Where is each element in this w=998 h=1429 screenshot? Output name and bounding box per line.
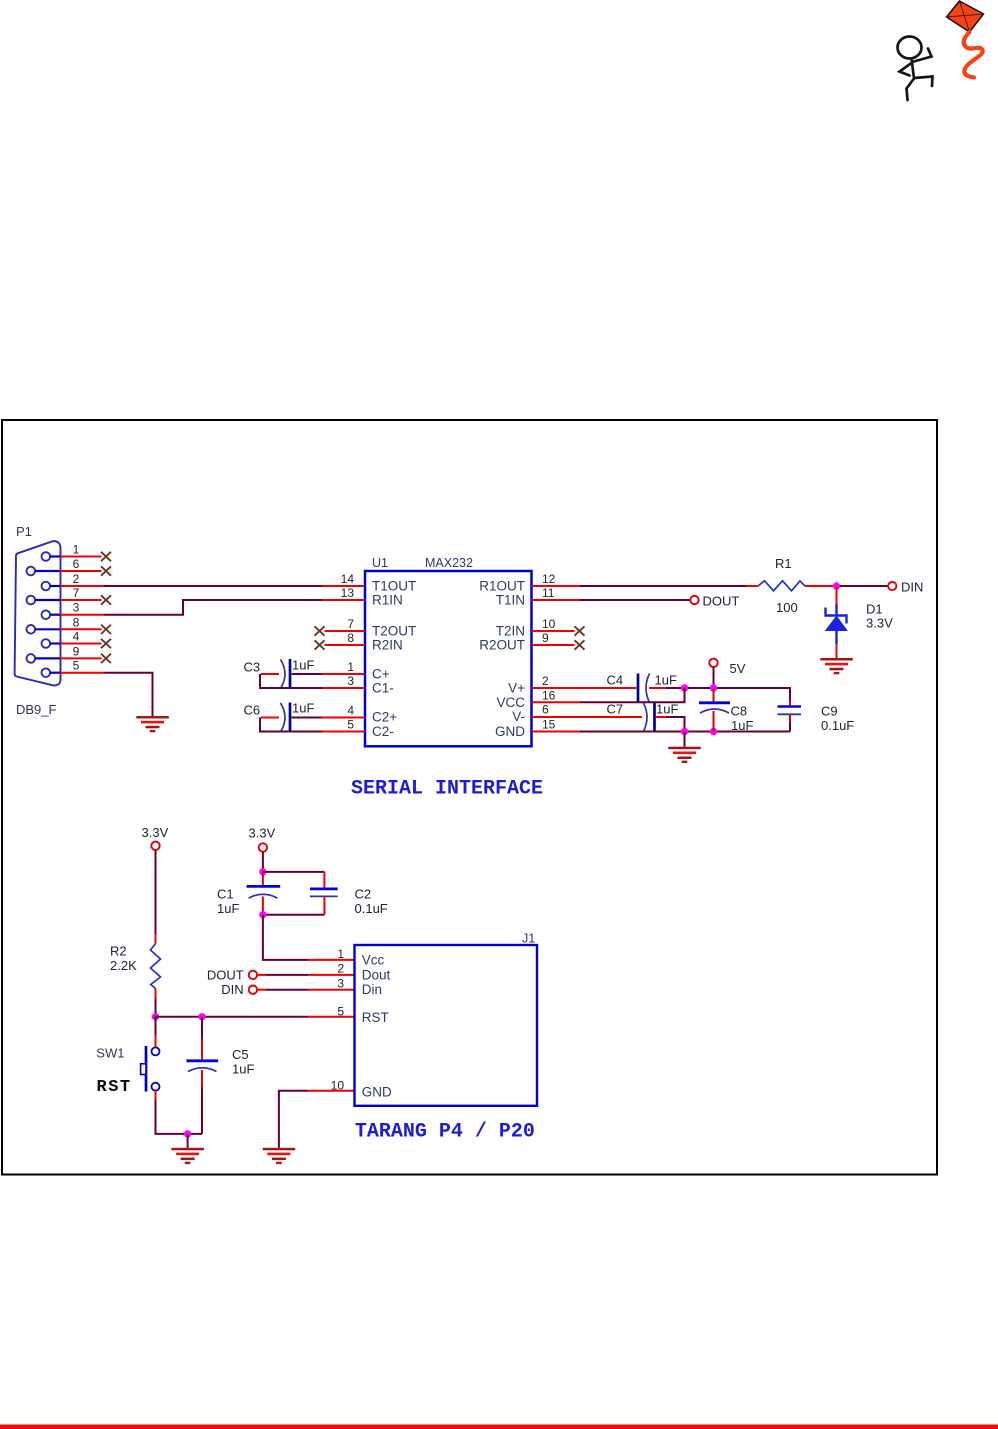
- wire ground stem SW1 rail: [187, 1134, 189, 1148]
- wire 3.3V right down: [262, 852, 264, 872]
- svg-text:2: 2: [542, 674, 549, 688]
- svg-text:C1-: C1-: [372, 681, 394, 696]
- wire U1 T1IN to DOUT: [532, 599, 691, 601]
- wire P1 pin2 to U1 T1OUT: [60, 585, 365, 587]
- wire U1 T2IN nc stub: [532, 626, 585, 635]
- junction C1/C2 top: [259, 868, 266, 875]
- P1 pin numbers: [73, 543, 80, 673]
- svg-text:DIN: DIN: [221, 982, 243, 997]
- svg-text:T2OUT: T2OUT: [372, 624, 416, 639]
- svg-text:1uF: 1uF: [292, 701, 314, 716]
- svg-text:12: 12: [542, 572, 556, 586]
- svg-text:R2OUT: R2OUT: [479, 638, 525, 653]
- svg-text:DB9_F: DB9_F: [16, 702, 57, 717]
- svg-text:TARANG P4 / P20: TARANG P4 / P20: [355, 1121, 535, 1144]
- terminal 3.3V left: [151, 842, 159, 850]
- capacitor C8: [699, 688, 730, 732]
- svg-text:DOUT: DOUT: [703, 594, 740, 609]
- svg-text:C+: C+: [372, 667, 390, 682]
- svg-text:2: 2: [73, 572, 80, 586]
- capacitor C9: [778, 700, 802, 732]
- U1 left pin names: [372, 579, 416, 740]
- svg-text:C1: C1: [217, 887, 234, 902]
- wire R1 to DIN: [805, 585, 889, 587]
- wire P1 pin8 stub: [60, 625, 111, 634]
- capacitor C5: [187, 1017, 219, 1134]
- capacitor C1: [247, 872, 281, 915]
- svg-text:4: 4: [347, 704, 354, 718]
- J1 pin names: [362, 953, 392, 1100]
- svg-text:15: 15: [542, 718, 556, 732]
- ground at SW1/C5: [171, 1148, 204, 1164]
- svg-text:10: 10: [331, 1078, 345, 1092]
- svg-text:C2+: C2+: [372, 710, 397, 725]
- svg-text:10: 10: [542, 617, 556, 631]
- svg-text:P1: P1: [16, 524, 32, 539]
- svg-text:5: 5: [347, 718, 354, 732]
- terminal DOUT lower: [249, 971, 257, 979]
- P1 pin circles and navy leads: [27, 552, 51, 677]
- svg-text:9: 9: [542, 631, 549, 645]
- terminal DOUT: [690, 596, 698, 604]
- wire junction to SW1: [155, 1017, 157, 1047]
- U1 right pin names: [479, 579, 525, 740]
- junction at R1/D1: [833, 582, 840, 589]
- wire P1 pin4 stub: [60, 639, 111, 648]
- svg-text:R1IN: R1IN: [372, 593, 403, 608]
- ground at D1: [820, 658, 853, 674]
- capacitor C7: [644, 703, 655, 732]
- wire SW1 to bottom rail: [156, 1091, 203, 1134]
- svg-text:C3: C3: [244, 660, 261, 675]
- svg-text:5: 5: [337, 1004, 344, 1018]
- junction bottom rail ground: [184, 1130, 191, 1137]
- wire U1 V+ through C4 to 5V rail: [532, 688, 791, 700]
- ground at P1 pin5: [136, 716, 169, 732]
- svg-text:C6: C6: [244, 703, 261, 718]
- connector P1 DB9_F outline: [15, 541, 61, 685]
- svg-text:8: 8: [73, 615, 80, 629]
- wire P1 pin1 stub: [60, 552, 111, 561]
- svg-text:9: 9: [73, 644, 80, 658]
- wire Vcc net to J1: [263, 915, 355, 960]
- svg-text:Vcc: Vcc: [362, 953, 385, 968]
- svg-text:6: 6: [73, 557, 80, 571]
- junction C4/5V rail: [681, 684, 688, 691]
- svg-text:1: 1: [73, 543, 80, 557]
- svg-text:SW1: SW1: [96, 1046, 124, 1061]
- svg-text:VCC: VCC: [496, 695, 525, 710]
- svg-text:1: 1: [337, 947, 344, 961]
- svg-text:MAX232: MAX232: [425, 556, 473, 570]
- junction C1/C2 bottom: [259, 911, 266, 918]
- terminal 3.3V right: [259, 843, 267, 851]
- wire P1 pin3 to U1 R1IN: [60, 600, 365, 615]
- wire 3.3V to R2: [155, 850, 157, 943]
- wire U1 R1OUT to R1: [532, 585, 759, 587]
- svg-text:8: 8: [347, 631, 354, 645]
- svg-text:1uF: 1uF: [292, 658, 314, 673]
- svg-text:0.1uF: 0.1uF: [821, 718, 854, 733]
- svg-text:U1: U1: [372, 556, 388, 570]
- svg-text:4: 4: [73, 630, 80, 644]
- svg-text:100: 100: [776, 600, 798, 615]
- wire U1 T2OUT nc stub: [315, 626, 366, 635]
- svg-text:0.1uF: 0.1uF: [355, 901, 388, 916]
- svg-text:GND: GND: [495, 724, 525, 739]
- svg-text:Din: Din: [362, 982, 382, 997]
- wire P1 pin9 stub: [60, 654, 111, 663]
- svg-text:3.3V: 3.3V: [142, 825, 169, 840]
- svg-text:C5: C5: [232, 1047, 249, 1062]
- wire U1 GND rail: [532, 731, 791, 733]
- svg-text:5V: 5V: [730, 661, 746, 676]
- wire DOUT to J1: [257, 974, 354, 976]
- wire U1 C2+ through C6 loop to C2-: [260, 718, 365, 732]
- wire U1 C+ through C3 loop to C1-: [260, 674, 365, 688]
- svg-text:11: 11: [542, 586, 555, 600]
- resistor R1: [758, 581, 805, 591]
- svg-text:1uF: 1uF: [655, 673, 677, 688]
- svg-text:C9: C9: [821, 704, 838, 719]
- svg-text:1: 1: [347, 660, 354, 674]
- terminal DIN: [888, 582, 896, 590]
- svg-text:3: 3: [337, 976, 344, 990]
- svg-text:2: 2: [337, 962, 344, 976]
- svg-text:T2IN: T2IN: [496, 624, 525, 639]
- svg-text:Dout: Dout: [362, 967, 391, 982]
- capacitor C3: [281, 659, 291, 689]
- capacitor C6: [281, 703, 291, 733]
- svg-text:13: 13: [341, 586, 355, 600]
- resistor R2: [151, 944, 161, 989]
- logo stick figure running: [898, 37, 933, 101]
- svg-text:R1: R1: [775, 556, 792, 571]
- op-amp chip U1 MAX232 body: [365, 571, 532, 746]
- svg-text:RST: RST: [362, 1010, 389, 1025]
- wire U1 V- through C7 to ground rail: [532, 717, 685, 732]
- wire R2 to junction: [155, 989, 157, 1017]
- svg-text:R2IN: R2IN: [372, 638, 403, 653]
- switch SW1: [141, 1046, 160, 1092]
- capacitor C4: [638, 674, 650, 703]
- svg-text:C2: C2: [355, 887, 372, 902]
- junction gnd rail left: [681, 728, 688, 735]
- wire P1 pin7 stub: [60, 595, 111, 604]
- svg-text:6: 6: [542, 703, 549, 717]
- svg-text:T1IN: T1IN: [496, 593, 525, 608]
- wire GND to J1: [279, 1091, 355, 1148]
- terminal 5V: [709, 659, 717, 667]
- svg-text:1uF: 1uF: [656, 702, 678, 717]
- junction R2/SW1/RST: [152, 1013, 159, 1020]
- svg-text:C8: C8: [731, 704, 748, 719]
- ground at J1 GND: [263, 1148, 296, 1164]
- svg-text:GND: GND: [362, 1085, 392, 1100]
- terminal DIN lower: [249, 986, 257, 994]
- svg-text:5: 5: [73, 659, 80, 673]
- ground at C8 rail: [668, 747, 701, 763]
- junction RST/C5: [198, 1013, 205, 1020]
- svg-text:3: 3: [347, 674, 354, 688]
- wire U1 R2OUT nc stub: [532, 640, 585, 649]
- svg-text:RST: RST: [97, 1078, 132, 1097]
- schematic frame: [2, 420, 937, 1175]
- svg-text:T1OUT: T1OUT: [372, 579, 416, 594]
- svg-text:C7: C7: [607, 702, 624, 717]
- svg-text:DOUT: DOUT: [207, 967, 244, 982]
- svg-text:J1: J1: [522, 931, 535, 945]
- svg-text:7: 7: [347, 617, 354, 631]
- svg-text:C2-: C2-: [372, 724, 394, 739]
- J1 pin numbers: [331, 947, 345, 1092]
- svg-text:7: 7: [73, 586, 80, 600]
- svg-text:V+: V+: [508, 681, 525, 696]
- wire ground stem center: [684, 732, 686, 747]
- svg-text:D1: D1: [866, 602, 883, 617]
- wire P1 pin6 stub: [60, 566, 111, 575]
- zener diode D1: [825, 586, 848, 658]
- footer red rule: [0, 1425, 998, 1429]
- wire 5V down: [713, 667, 715, 688]
- svg-text:3.3V: 3.3V: [866, 616, 893, 631]
- svg-text:DIN: DIN: [901, 580, 923, 595]
- svg-text:1uF: 1uF: [232, 1061, 254, 1076]
- connector J1 body: [355, 945, 538, 1106]
- svg-text:R2: R2: [110, 943, 127, 958]
- capacitor C2: [263, 872, 338, 915]
- wire P1 pin5 to ground: [60, 673, 153, 716]
- wire DIN to J1: [257, 989, 354, 991]
- svg-text:1uF: 1uF: [731, 718, 753, 733]
- svg-text:3: 3: [73, 601, 80, 615]
- logo kite: [947, 1, 984, 78]
- svg-text:3.3V: 3.3V: [249, 826, 276, 841]
- junction gnd rail right: [710, 728, 717, 735]
- U1 right pin numbers: [542, 572, 556, 732]
- svg-text:C4: C4: [607, 673, 624, 688]
- wire U1 VCC to 5V rail: [532, 688, 685, 702]
- svg-text:V-: V-: [512, 709, 525, 724]
- svg-text:R1OUT: R1OUT: [479, 579, 525, 594]
- junction 5V/C8: [710, 684, 717, 691]
- svg-text:2.2K: 2.2K: [110, 958, 137, 973]
- svg-text:1uF: 1uF: [217, 901, 239, 916]
- svg-text:14: 14: [341, 572, 355, 586]
- svg-text:16: 16: [542, 689, 556, 703]
- svg-text:SERIAL INTERFACE: SERIAL INTERFACE: [351, 778, 543, 801]
- wire RST net to J1: [156, 1016, 355, 1018]
- U1 left pin numbers: [341, 572, 355, 732]
- wire U1 R2IN nc stub: [315, 640, 366, 649]
